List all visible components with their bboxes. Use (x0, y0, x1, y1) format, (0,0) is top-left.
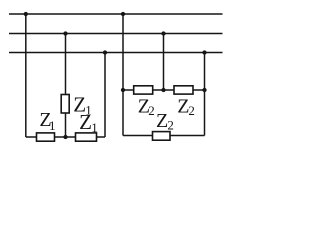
wire: left group bottom left segment (26, 136, 37, 138)
wire: left group phase-2 drop to Z1 box (65, 34, 67, 95)
svg-text:2: 2 (167, 118, 174, 133)
wire: left group phase-1 drop (25, 14, 27, 137)
node: right group top row left (121, 88, 125, 92)
impedance Z1 box (phase 3, horizontal) (76, 133, 97, 141)
node: right group top row right (202, 88, 206, 92)
wire: right group left drop to bottom (122, 90, 124, 136)
wire: left group Z1 box to star point (65, 113, 67, 137)
node: L3 to right group (202, 50, 206, 54)
node: left group star point (63, 135, 67, 139)
node: L1 to right group (121, 12, 125, 16)
wire: right group top row left segment (123, 89, 134, 91)
wire: right group phase-3 drop (204, 53, 206, 136)
wire: left group bottom right segment (97, 136, 106, 138)
svg-text:1: 1 (49, 118, 56, 133)
svg-text:Z: Z (156, 110, 168, 132)
impedance Z2 box (L1-L3, horizontal) (153, 132, 171, 141)
svg-text:2: 2 (148, 103, 155, 118)
wire: right group bottom right segment (170, 135, 205, 137)
node: L3 to left group (103, 50, 107, 54)
wire: left group phase-3 drop (104, 53, 106, 138)
bus line L3 (9, 52, 223, 54)
wire: right group phase-2 drop (163, 34, 165, 91)
wire: right group top row middle segment (153, 89, 174, 91)
wire: right group top row right segment (193, 89, 205, 91)
node: right group top row middle (161, 88, 165, 92)
svg-text:1: 1 (91, 120, 98, 135)
svg-text:Z: Z (79, 110, 92, 134)
node: L2 to right group (161, 31, 165, 35)
node: L2 to left group (63, 31, 67, 35)
svg-text:2: 2 (188, 103, 195, 118)
wire: right group bottom left segment (123, 135, 153, 137)
node: L1 to left group (24, 12, 28, 16)
impedance Z1 box (phase 1, horizontal) (37, 133, 55, 141)
bus line L2 (9, 33, 223, 35)
bus line L1 (9, 13, 223, 15)
wire: left group bottom middle segment (55, 136, 76, 138)
impedance Z2 box (L1-L2, horizontal) (134, 86, 153, 94)
impedance Z1 box (phase 2, vertical) (61, 95, 69, 114)
impedance Z2 box (L2-L3, horizontal) (174, 86, 193, 94)
wire: right group phase-1 drop (122, 14, 124, 90)
